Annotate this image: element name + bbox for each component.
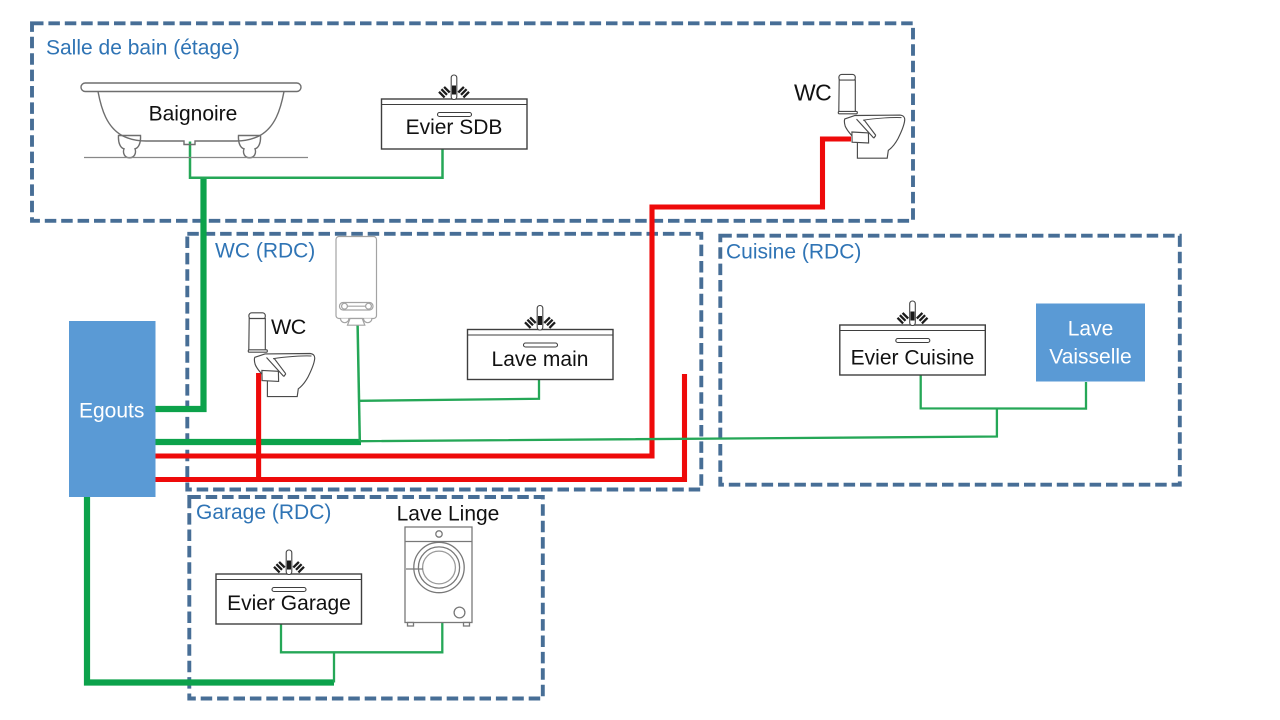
wire green bathtub drain <box>190 142 443 178</box>
wire red WC RDC drop <box>256 373 261 480</box>
Lave Vaisselle block <box>1036 304 1145 382</box>
wire green water heater drain <box>358 325 360 441</box>
svg-text:Vaisselle: Vaisselle <box>1049 346 1131 369</box>
floor line under bathtub <box>84 157 308 159</box>
svg-text:Baignoire: Baignoire <box>149 103 238 126</box>
faucet Evier Cuisine <box>898 301 928 326</box>
water heater <box>336 237 377 326</box>
faucet Evier Garage <box>274 550 304 575</box>
svg-text:Evier Garage: Evier Garage <box>227 592 351 615</box>
wire green garage drains <box>281 623 442 653</box>
svg-text:Lave: Lave <box>1068 318 1114 341</box>
box Cuisine (RDC) <box>720 236 1180 485</box>
box Salle de bain (etage) <box>32 23 913 221</box>
toilet WC RDC <box>248 313 314 397</box>
svg-text:Lave main: Lave main <box>492 348 589 371</box>
svg-text:Lave Linge: Lave Linge <box>397 502 500 525</box>
svg-text:Evier Cuisine: Evier Cuisine <box>851 347 975 370</box>
wire green garage junction drop <box>333 652 335 682</box>
svg-text:WC (RDC): WC (RDC) <box>215 240 315 263</box>
svg-text:Evier SDB: Evier SDB <box>406 116 503 139</box>
bathtub Baignoire <box>81 83 301 158</box>
svg-text:Salle de bain (étage): Salle de bain (étage) <box>46 36 240 59</box>
faucet Evier SDB <box>439 75 469 100</box>
sink Lave main <box>468 330 614 380</box>
svg-text:WC: WC <box>794 80 831 106</box>
Egouts block <box>69 321 156 497</box>
wire thick green main bathtub to Egouts <box>155 179 204 410</box>
sink Evier Garage <box>216 574 362 624</box>
washing machine Lave Linge <box>405 527 472 626</box>
svg-text:Cuisine (RDC): Cuisine (RDC) <box>726 241 861 264</box>
wire thick green Egouts bottom to garage <box>87 496 334 683</box>
wire green lave main drain <box>360 379 539 401</box>
box Garage (RDC) <box>189 497 543 699</box>
wire green cuisine long run <box>360 409 997 442</box>
wire thick green Egouts to kitchen junction <box>155 439 361 445</box>
faucet Lave main <box>525 306 555 331</box>
wire green evier cuisine drain <box>921 375 1086 409</box>
svg-text:Egouts: Egouts <box>79 400 144 423</box>
sink Evier Cuisine <box>840 325 986 375</box>
wire red Egouts lower branch with stub <box>155 374 685 480</box>
sink Evier SDB <box>382 99 528 149</box>
toilet WC etage <box>838 74 904 158</box>
svg-text:Garage (RDC): Garage (RDC) <box>196 501 331 524</box>
wire red WC etage to Egouts <box>155 139 851 456</box>
svg-text:WC: WC <box>271 315 306 339</box>
box WC (RDC) <box>187 234 701 490</box>
